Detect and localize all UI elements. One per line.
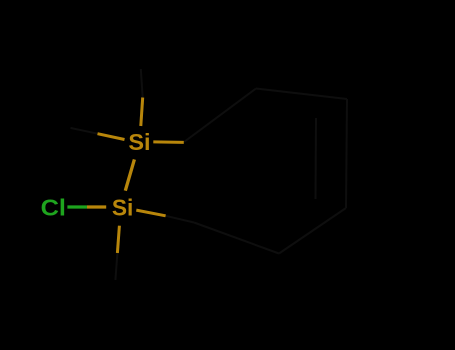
ring bond D-E	[279, 208, 346, 254]
svg-text:Si: Si	[112, 194, 133, 220]
Si1 left-methyl bond (orange half)	[98, 134, 125, 140]
Cl-Si2 bond green half	[67, 205, 87, 208]
ring bond C-D	[346, 99, 347, 208]
Si1 up-methyl bond (orange half)	[141, 98, 143, 127]
Si2 right bond (orange half)	[136, 210, 165, 216]
svg-text:Cl: Cl	[41, 195, 66, 221]
ring double bond inner line	[315, 118, 318, 199]
Si1 right bond to ring	[153, 140, 184, 144]
Si2 down-methyl bond (orange half)	[117, 226, 119, 253]
dark half of Si2 right bond to ring carbon F	[166, 216, 194, 223]
dark half of Si2 down-methyl	[115, 253, 117, 280]
Cl-Si2 bond orange half	[87, 205, 106, 208]
dark half of Si1 left-methyl	[71, 128, 98, 134]
Si1-Si2 bond	[125, 159, 134, 190]
ring bond E-F	[194, 223, 279, 254]
ring bond A-B (carbon, near-black)	[184, 89, 256, 143]
dark half of Si1 up-methyl	[141, 69, 143, 98]
svg-text:Si: Si	[128, 129, 150, 155]
ring bond B-C	[256, 89, 347, 100]
